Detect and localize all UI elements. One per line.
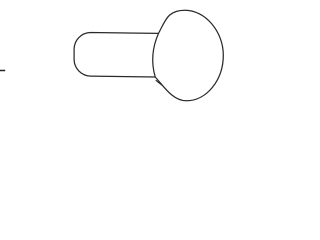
rivet head left face edge (slightly bowed)	[153, 33, 159, 77]
rivet shaft (cylinder with rounded left end)	[74, 33, 158, 78]
head underside short doubled edge below junction	[156, 80, 163, 85]
small dash at left image edge	[0, 70, 5, 72]
rivet head dome outline	[155, 10, 223, 101]
